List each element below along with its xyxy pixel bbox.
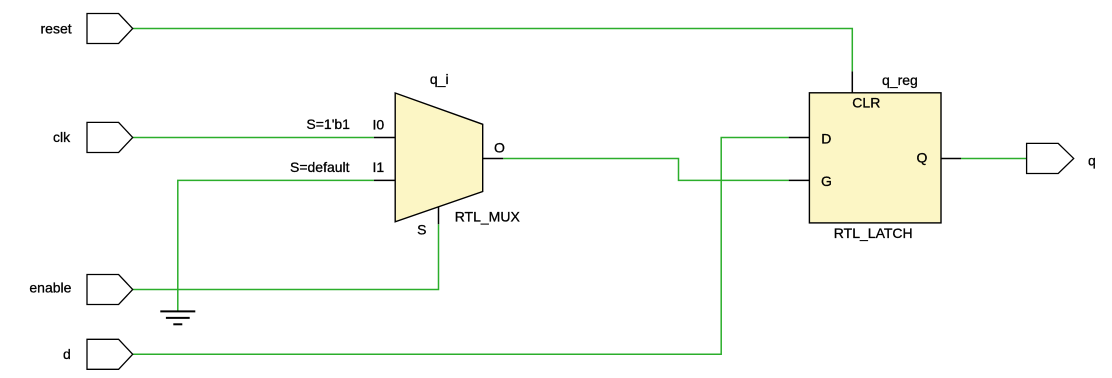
svg-text:q: q [1088, 152, 1096, 168]
svg-text:Q: Q [917, 150, 928, 166]
svg-text:S: S [417, 222, 426, 238]
svg-text:RTL_MUX: RTL_MUX [455, 208, 521, 224]
svg-text:S=default: S=default [290, 159, 350, 175]
svg-text:clk: clk [53, 129, 71, 145]
svg-text:enable: enable [29, 280, 71, 296]
svg-text:q_reg: q_reg [882, 72, 918, 88]
svg-text:RTL_LATCH: RTL_LATCH [834, 225, 913, 241]
svg-text:CLR: CLR [852, 95, 880, 111]
svg-text:D: D [821, 130, 831, 146]
svg-text:reset: reset [41, 20, 72, 36]
svg-text:O: O [494, 139, 505, 155]
svg-text:I0: I0 [373, 117, 385, 133]
svg-text:d: d [63, 346, 71, 362]
svg-text:S=1'b1: S=1'b1 [306, 116, 350, 132]
svg-text:I1: I1 [373, 159, 385, 175]
svg-text:q_i: q_i [430, 71, 449, 87]
svg-text:G: G [821, 173, 832, 189]
